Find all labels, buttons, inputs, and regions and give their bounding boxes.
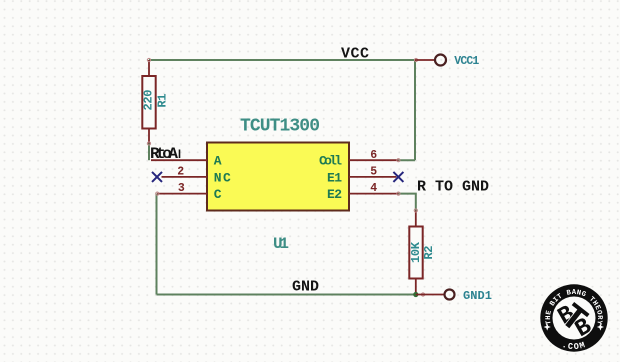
pin A (1) (151, 154, 222, 169)
svg-text:5: 5 (370, 165, 377, 178)
svg-text:220: 220 (142, 90, 156, 111)
no-connect X pin 2 (152, 172, 162, 182)
connector VCC1 (415, 55, 479, 69)
wire pin6 to vertical (398, 159, 415, 161)
svg-text:E2: E2 (327, 187, 342, 202)
connector GND1 (416, 289, 492, 303)
svg-text:C: C (214, 187, 222, 202)
no-connect X pin 5 (393, 172, 403, 182)
svg-text:Coll: Coll (319, 154, 342, 169)
svg-text:R1: R1 (156, 94, 170, 108)
pin E1 (5) (327, 165, 396, 185)
svg-text:2: 2 (177, 166, 184, 179)
wire right vertical to pin 6 (414, 60, 416, 160)
IC U1 TCUT1300 (207, 116, 349, 253)
svg-text:E1: E1 (327, 170, 342, 185)
wire R1 to pin A (148, 144, 150, 161)
svg-text:10K: 10K (409, 241, 423, 263)
svg-text:VCC1: VCC1 (454, 55, 479, 68)
svg-text:A: A (214, 154, 222, 169)
pin end markers (147, 58, 424, 296)
svg-text:VCC: VCC (341, 46, 369, 63)
svg-text:R2: R2 (422, 246, 436, 260)
pin C (3) (157, 182, 222, 202)
svg-text:3: 3 (178, 182, 185, 195)
pin E2 (4) (327, 182, 398, 202)
svg-text:U1: U1 (273, 235, 289, 253)
resistor R2 (409, 211, 436, 295)
junction (413, 292, 418, 297)
wire pin3 down (156, 194, 158, 295)
wire VCC top (149, 59, 415, 61)
svg-text:RtoA: RtoA (150, 145, 178, 163)
pin NC (2) (162, 166, 231, 186)
wire pin4 to R2 (398, 194, 415, 211)
svg-text:GND1: GND1 (463, 289, 492, 303)
node RtoA label (150, 145, 180, 163)
svg-text:NC: NC (214, 170, 231, 185)
wire GND bottom (157, 294, 416, 296)
svg-text:TCUT1300: TCUT1300 (240, 116, 320, 136)
pin Coll (6) (319, 149, 398, 169)
logo stamp (540, 284, 607, 352)
svg-text:6: 6 (370, 149, 377, 162)
svg-text:4: 4 (370, 182, 377, 195)
svg-text:R TO GND: R TO GND (417, 179, 489, 196)
svg-text:GND: GND (292, 279, 319, 296)
resistor R1 (142, 60, 170, 144)
